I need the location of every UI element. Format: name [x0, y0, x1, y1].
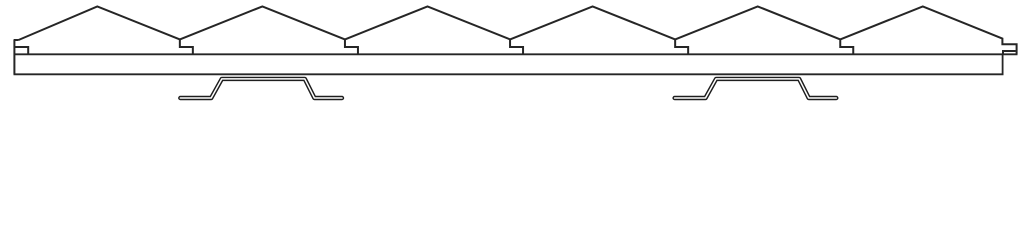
- ridge 2: [180, 6, 358, 54]
- panel bottom line: [14, 73, 1004, 75]
- hat channel 2 sheet outline: [675, 79, 837, 98]
- hat channel 1 sheet outline: [180, 79, 342, 98]
- ridge 4: [510, 6, 688, 54]
- cladding left step: [14, 47, 29, 54]
- panel top line: [14, 53, 1017, 55]
- ridge 3: [345, 6, 523, 54]
- hat channel 2: [675, 79, 837, 98]
- panel right edge: [1002, 54, 1004, 74]
- ridge 6 and right lock tab: [840, 6, 1016, 54]
- hat channel 2 sheet core: [675, 79, 837, 98]
- hat channel 1 sheet core: [180, 79, 342, 98]
- ridge 5: [675, 6, 853, 54]
- cladding left cap horizontal: [14, 39, 19, 41]
- hat channel 1: [180, 79, 342, 98]
- cladding left edge vertical: [13, 40, 15, 74]
- right lock tab inner line: [1003, 51, 1016, 54]
- ridge 1: [19, 6, 193, 54]
